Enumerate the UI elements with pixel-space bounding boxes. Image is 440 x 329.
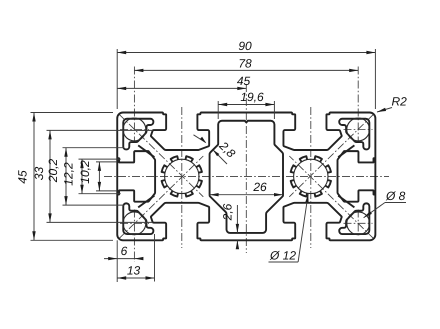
- svg-text:26: 26: [252, 180, 267, 194]
- leader and label d8: [385, 202, 406, 204]
- dim 20,2: [65, 148, 67, 205]
- diagonal center line top-left corner to left hole: [119, 114, 203, 197]
- screw core circle d8 bottom-right: [347, 212, 370, 235]
- svg-text:Ø 8: Ø 8: [385, 189, 406, 203]
- splined hole d12 right: reference circle: [294, 159, 328, 193]
- dim 20,2 extension lines: [63, 147, 124, 149]
- dim 90: [117, 52, 375, 54]
- dim 10,2: [98, 162, 100, 191]
- vertical center line through left hole: [181, 107, 183, 248]
- corner screw-boss cavity bottom-right: [339, 203, 369, 234]
- svg-text:13: 13: [127, 264, 141, 278]
- dim 6 extension line: [116, 240, 118, 282]
- splined hole d12 left: reference circle: [165, 159, 199, 193]
- diagonal center line top-right corner to right hole: [289, 114, 373, 197]
- center cross boss top-left: [133, 67, 135, 144]
- svg-text:10,2: 10,2: [78, 160, 92, 184]
- vertical center line through right hole: [310, 107, 312, 248]
- diagonal web wall: [138, 145, 154, 157]
- dim 19,6: [218, 104, 274, 106]
- splined hole d12 left: serration teeth: [162, 156, 202, 196]
- horizontal axis center line: [104, 175, 389, 177]
- svg-text:33: 33: [32, 167, 46, 181]
- dim 10,2 extension lines: [96, 161, 117, 163]
- dim 78: [134, 69, 358, 71]
- dim 33 extension lines: [47, 129, 153, 131]
- dim 6: [104, 258, 134, 260]
- screw core circle d8 top-left: [123, 118, 146, 141]
- svg-text:45: 45: [16, 170, 30, 184]
- center cross boss bottom-right: [357, 210, 359, 237]
- svg-text:12,2: 12,2: [62, 162, 76, 186]
- svg-text:Ø 12: Ø 12: [269, 249, 296, 263]
- diagonal web wall: [338, 196, 354, 208]
- svg-text:19,6: 19,6: [240, 90, 264, 104]
- dim 33: [49, 130, 51, 222]
- diagonal web wall: [138, 196, 154, 208]
- central cavity: [210, 121, 283, 233]
- dim 26: [210, 194, 283, 196]
- diagonal center line bottom-right corner to right hole: [289, 156, 373, 239]
- svg-text:20,2: 20,2: [46, 158, 60, 183]
- diagonal center line bottom-left corner to left hole: [119, 156, 203, 239]
- dim 12,2: [81, 159, 83, 194]
- leader and label d12: [298, 194, 308, 262]
- dim 45 left: [33, 113, 35, 241]
- svg-text:2,6: 2,6: [221, 203, 235, 221]
- splined hole d12 right: serration teeth: [291, 156, 331, 196]
- svg-text:78: 78: [238, 57, 252, 71]
- svg-text:R2: R2: [392, 95, 408, 109]
- screw core circle d8 bottom-left: [123, 212, 146, 235]
- svg-text:45: 45: [237, 74, 251, 88]
- dim 45 left extension lines: [31, 112, 114, 114]
- dim 13 extension line: [154, 234, 156, 282]
- svg-text:6: 6: [121, 244, 128, 258]
- dim 2,8 leader: [194, 135, 206, 143]
- dim 2,6: [236, 205, 238, 233]
- screw core circle d8 top-right: [347, 118, 370, 141]
- center cross boss bottom-left: [133, 210, 135, 263]
- corner screw-boss cavity bottom-left: [123, 203, 153, 234]
- leader and label R2: [377, 108, 392, 113]
- dim 12,2 extension lines: [79, 158, 121, 160]
- profile outer contour with T-slots and side openings: [117, 112, 375, 240]
- dim 90 extension lines: [116, 49, 118, 109]
- center cross boss top-right: [357, 67, 359, 144]
- dim 45 top: [117, 87, 246, 89]
- diagonal web wall: [338, 145, 354, 157]
- corner screw-boss cavity top-left: [123, 119, 153, 150]
- corner screw-boss cavity top-right: [339, 119, 369, 150]
- svg-text:90: 90: [238, 39, 252, 53]
- vertical center line of profile: [245, 84, 247, 253]
- dim 19,6 extension lines: [217, 101, 219, 119]
- dim 13: [117, 277, 154, 279]
